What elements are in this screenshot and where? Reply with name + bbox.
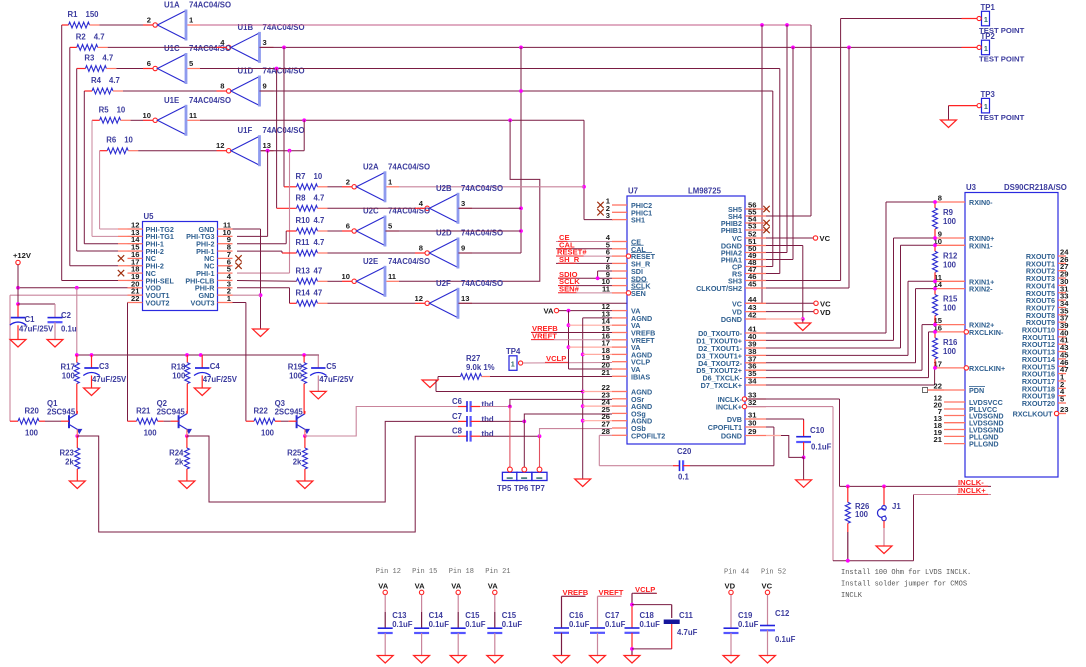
svg-text:74AC04/SO: 74AC04/SO xyxy=(461,184,503,193)
svg-text:SEN#: SEN# xyxy=(559,284,580,293)
svg-text:2k: 2k xyxy=(65,458,74,467)
svg-text:TP7: TP7 xyxy=(531,484,545,493)
svg-text:R22: R22 xyxy=(254,407,269,416)
wire xyxy=(286,230,296,232)
ground R25 xyxy=(297,481,313,489)
wire D7_TXCLK+ xyxy=(766,384,935,386)
svg-text:VOUT2: VOUT2 xyxy=(146,298,170,307)
wire CP xyxy=(766,266,773,268)
wire SH4 xyxy=(766,215,811,217)
svg-text:74AC04/SO: 74AC04/SO xyxy=(189,44,231,53)
svg-text:3: 3 xyxy=(461,199,465,208)
inverter U2C xyxy=(352,229,356,233)
svg-text:100: 100 xyxy=(62,372,76,381)
svg-text:U1E: U1E xyxy=(164,96,179,105)
node v521-U2Cin xyxy=(519,229,523,233)
wire xyxy=(276,69,278,209)
svg-text:4.7: 4.7 xyxy=(94,32,105,41)
svg-text:U2F: U2F xyxy=(436,279,451,288)
svg-text:C16: C16 xyxy=(569,611,584,620)
node v521-U2Bin xyxy=(519,206,523,210)
jumper J1 xyxy=(883,486,885,505)
node Q2 emitter xyxy=(185,434,189,438)
resistor R18 xyxy=(186,355,188,363)
node C8-TP7 xyxy=(538,434,542,438)
wire AGND riser xyxy=(583,317,612,319)
wire xyxy=(76,288,78,355)
svg-text:3: 3 xyxy=(606,211,610,220)
wire SDI xyxy=(598,270,612,272)
svg-text:Pin 18: Pin 18 xyxy=(449,568,474,576)
ground C18 xyxy=(624,656,640,664)
resistor R2 xyxy=(77,45,98,51)
inverter U1E xyxy=(153,118,157,122)
net VREFT xyxy=(531,339,612,341)
svg-text:R12: R12 xyxy=(943,251,958,260)
svg-text:13: 13 xyxy=(263,141,271,150)
inverter U1D xyxy=(227,89,231,93)
wire xyxy=(267,151,269,237)
power VD pin43 xyxy=(814,309,818,313)
no-connect square PDN xyxy=(923,388,928,393)
IC U3 right pins RXOUT0-20 xyxy=(1058,255,1066,257)
node U5 gnd xyxy=(259,293,263,297)
wire xyxy=(76,413,79,415)
svg-text:PDN: PDN xyxy=(969,386,984,395)
svg-text:100: 100 xyxy=(144,429,158,438)
node C10 gnd xyxy=(802,456,806,460)
node RXIN1- xyxy=(933,243,937,247)
wire xyxy=(303,413,306,415)
inverter U2D xyxy=(425,251,429,255)
wire xyxy=(76,69,78,252)
svg-text:C15: C15 xyxy=(465,611,480,620)
wire D4_TXOUT2- xyxy=(766,362,916,364)
svg-text:0.1uF: 0.1uF xyxy=(775,635,796,644)
svg-text:0.1u: 0.1u xyxy=(61,325,77,334)
svg-text:28: 28 xyxy=(602,427,610,436)
node rowB-pin45 xyxy=(847,46,851,50)
inverter U1F xyxy=(227,149,231,153)
IC U7 box xyxy=(627,196,745,444)
IC U7 left pins xyxy=(612,204,627,206)
wire xyxy=(569,346,613,348)
resistor R19 xyxy=(303,355,305,363)
wire xyxy=(186,413,188,415)
svg-text:R19: R19 xyxy=(288,363,303,372)
svg-text:Pin 15: Pin 15 xyxy=(412,568,437,576)
wire VC44 xyxy=(766,302,814,304)
svg-text:U2D: U2D xyxy=(436,229,452,238)
svg-text:2: 2 xyxy=(147,16,151,25)
svg-text:2k: 2k xyxy=(175,458,184,467)
svg-text:TP6: TP6 xyxy=(514,484,529,493)
node INCLK-R26 xyxy=(846,485,850,489)
resistor R10 xyxy=(297,228,318,234)
wire xyxy=(123,90,217,92)
testpoint TP5 xyxy=(502,472,517,480)
wire xyxy=(480,420,524,422)
wire CPOFILT1 xyxy=(683,465,690,467)
wire xyxy=(328,230,343,232)
svg-text:Pin 52: Pin 52 xyxy=(761,569,786,577)
node bus xyxy=(199,353,203,357)
node INCLK-J1 xyxy=(882,485,886,489)
output-bubble U7 pin33 xyxy=(742,397,746,401)
svg-text:U1A: U1A xyxy=(164,1,180,10)
inverter U1B xyxy=(227,45,231,49)
node rowB-R7 xyxy=(282,46,286,50)
resistor R1 xyxy=(69,22,90,28)
svg-text:0.1uF: 0.1uF xyxy=(465,620,486,629)
svg-text:1: 1 xyxy=(984,102,988,111)
svg-text:4.7: 4.7 xyxy=(314,238,325,247)
node bus xyxy=(90,353,94,357)
wire D3_TXOUT1+ xyxy=(766,354,908,356)
capacitor C8 xyxy=(458,435,467,437)
ground J1 xyxy=(876,546,892,554)
svg-text:SEN: SEN xyxy=(631,289,646,298)
wire xyxy=(91,120,93,236)
svg-text:VD: VD xyxy=(725,582,736,591)
svg-text:R23: R23 xyxy=(59,449,74,458)
svg-text:22: 22 xyxy=(934,382,942,391)
resistor R9 xyxy=(934,202,936,208)
node rowD-v521 xyxy=(519,89,523,93)
resistor R24 xyxy=(186,436,188,448)
wire net SH1 xyxy=(200,119,584,121)
svg-text:C2: C2 xyxy=(61,311,72,320)
svg-text:29: 29 xyxy=(748,427,756,436)
inverter U2E xyxy=(352,279,356,283)
svg-text:DGND: DGND xyxy=(721,315,742,324)
svg-text:12: 12 xyxy=(216,141,224,150)
svg-text:R8: R8 xyxy=(296,193,307,202)
svg-text:R27: R27 xyxy=(466,354,480,363)
svg-text:4.7: 4.7 xyxy=(102,54,113,63)
wire xyxy=(76,429,78,436)
svg-text:Install solder jumper for CMOS: Install solder jumper for CMOS xyxy=(841,581,967,589)
svg-text:U1B: U1B xyxy=(238,23,254,32)
svg-text:0.1uF: 0.1uF xyxy=(738,620,759,629)
node VA17 xyxy=(567,345,571,349)
svg-text:10: 10 xyxy=(117,105,126,114)
power VC pin44 xyxy=(814,301,818,305)
resistor R13 xyxy=(297,278,318,284)
wire xyxy=(480,406,510,408)
svg-text:VCLP: VCLP xyxy=(546,354,566,363)
svg-text:150: 150 xyxy=(86,10,100,19)
wire VC52 xyxy=(766,237,813,239)
wire xyxy=(108,46,217,48)
capacitor C5 xyxy=(317,355,319,368)
wire Q3 route xyxy=(305,407,460,437)
svg-text:C17: C17 xyxy=(605,611,619,620)
wire net RS xyxy=(200,68,780,70)
svg-text:C15: C15 xyxy=(502,611,517,620)
wire xyxy=(583,353,612,355)
ground R23 xyxy=(69,481,85,489)
svg-text:4.7uF: 4.7uF xyxy=(677,628,698,637)
svg-text:+12V: +12V xyxy=(13,251,32,260)
svg-text:47uF/25V: 47uF/25V xyxy=(203,375,238,384)
svg-text:INCLK: INCLK xyxy=(841,592,863,600)
svg-text:C3: C3 xyxy=(99,362,110,371)
node VA14 xyxy=(567,323,571,327)
svg-text:11: 11 xyxy=(189,111,198,120)
resistor R7 xyxy=(297,184,318,190)
wire xyxy=(131,119,143,121)
svg-text:1: 1 xyxy=(511,359,515,368)
node +12v-a xyxy=(16,286,20,290)
wire Q1 route xyxy=(77,436,460,532)
wire xyxy=(290,302,297,304)
wire xyxy=(186,413,188,415)
svg-text:tbd: tbd xyxy=(482,400,494,409)
svg-text:C14: C14 xyxy=(429,611,444,620)
ground DGND xyxy=(795,323,811,331)
wire xyxy=(328,280,343,282)
svg-text:10: 10 xyxy=(143,111,151,120)
svg-text:0.1uF: 0.1uF xyxy=(605,620,626,629)
svg-text:0.1uF: 0.1uF xyxy=(640,620,661,629)
svg-text:DGND: DGND xyxy=(721,432,742,441)
svg-text:100: 100 xyxy=(172,372,186,381)
svg-text:C4: C4 xyxy=(210,362,221,371)
svg-text:0.1: 0.1 xyxy=(678,473,690,482)
svg-text:C5: C5 xyxy=(326,362,337,371)
svg-text:VC: VC xyxy=(762,582,773,591)
svg-text:47uF/25V: 47uF/25V xyxy=(92,375,127,384)
transistor Q1 2SC945 xyxy=(68,415,70,428)
node RXIN0- xyxy=(933,200,937,204)
svg-text:11: 11 xyxy=(388,272,397,281)
svg-text:Install 100 Ohm for LVDS INCLK: Install 100 Ohm for LVDS INCLK. xyxy=(841,569,971,577)
wire net VCLP xyxy=(523,362,612,365)
net SCLK xyxy=(558,285,612,287)
svg-text:INCLK+: INCLK+ xyxy=(958,486,986,495)
node R26 bottom xyxy=(846,559,850,563)
svg-text:LM98725: LM98725 xyxy=(688,187,722,196)
wire INCLK+ xyxy=(747,406,833,408)
wire xyxy=(39,420,45,422)
svg-text:100: 100 xyxy=(943,217,957,226)
ground R27 xyxy=(422,380,438,388)
node RXCLKIN- xyxy=(933,330,937,334)
node VCLP top xyxy=(630,603,634,607)
wire xyxy=(786,25,788,253)
svg-text:4.7: 4.7 xyxy=(109,76,120,85)
svg-text:R1: R1 xyxy=(68,10,79,19)
IC U5 box xyxy=(143,222,218,311)
wire xyxy=(328,252,416,254)
IC U3 pin RXCLKOUT xyxy=(1058,413,1066,415)
capacitor C2 xyxy=(48,317,63,319)
wire DGND29 xyxy=(766,435,781,437)
svg-text:Pin 44: Pin 44 xyxy=(724,569,749,577)
wire PHIA2 xyxy=(766,252,787,254)
resistor R12 xyxy=(934,245,936,251)
svg-text:12: 12 xyxy=(415,294,423,303)
svg-text:100: 100 xyxy=(855,510,869,519)
ground C10 xyxy=(796,480,812,488)
svg-text:100: 100 xyxy=(943,347,957,356)
capacitor C1 xyxy=(17,304,19,318)
svg-text:10: 10 xyxy=(342,272,350,281)
testpoint TP6 xyxy=(517,472,532,480)
svg-text:47: 47 xyxy=(314,266,323,275)
wire xyxy=(76,413,78,415)
resistor R6 xyxy=(107,148,128,154)
wire xyxy=(83,91,85,244)
wire D5_TXOUT2+ xyxy=(766,369,922,371)
capacitor C11 (4.7uF) xyxy=(632,604,672,606)
svg-text:13: 13 xyxy=(461,294,469,303)
svg-text:U1D: U1D xyxy=(238,67,254,76)
node RXIN2+ xyxy=(933,323,937,327)
svg-text:C18: C18 xyxy=(640,611,655,620)
net SEN# xyxy=(558,292,612,294)
transistor Q2 2SC945 xyxy=(178,415,180,428)
svg-text:R2: R2 xyxy=(76,32,87,41)
svg-text:RXIN1-: RXIN1- xyxy=(969,241,993,250)
net SDIO xyxy=(558,277,612,279)
wire xyxy=(99,151,101,229)
svg-text:4.7: 4.7 xyxy=(314,216,325,225)
wire xyxy=(569,324,613,326)
ground C5 xyxy=(310,391,326,399)
no-connect U7 pin1 xyxy=(597,202,603,208)
no-connect U5 pin16 xyxy=(118,255,124,261)
svg-text:U2B: U2B xyxy=(436,184,452,193)
wire xyxy=(328,207,416,209)
capacitor C6 xyxy=(458,406,467,408)
node v584-U2Ain xyxy=(582,185,586,189)
svg-text:U3: U3 xyxy=(966,183,977,192)
resistor R23 xyxy=(76,436,78,448)
svg-text:45: 45 xyxy=(748,280,757,289)
svg-text:R13: R13 xyxy=(296,266,311,275)
svg-text:6: 6 xyxy=(147,59,151,68)
svg-text:RXIN0-: RXIN0- xyxy=(969,198,993,207)
svg-text:VREFT: VREFT xyxy=(599,588,624,597)
svg-text:Pin 12: Pin 12 xyxy=(376,568,401,576)
ground C4 xyxy=(194,388,210,396)
svg-text:R6: R6 xyxy=(106,136,117,145)
input-bubble U7 pin6 xyxy=(626,254,630,258)
wire xyxy=(275,420,281,422)
node U1F-pin10 xyxy=(266,149,270,153)
ground C1 xyxy=(10,340,26,348)
svg-text:D7_TXCLK+: D7_TXCLK+ xyxy=(701,381,742,390)
node Q3 emitter xyxy=(303,434,307,438)
node AGND xyxy=(581,419,585,423)
node rowE-U1F xyxy=(302,118,306,122)
svg-text:U1F: U1F xyxy=(238,126,253,135)
IC U7 right pins xyxy=(745,208,766,210)
inverter U2F xyxy=(425,301,429,305)
svg-text:0.1uF: 0.1uF xyxy=(569,620,590,629)
svg-text:R5: R5 xyxy=(99,105,110,114)
svg-text:INCLK+: INCLK+ xyxy=(716,403,742,412)
svg-text:TEST POINT: TEST POINT xyxy=(979,113,1025,122)
wire xyxy=(237,280,297,283)
wire D0_TXOUT0- xyxy=(766,332,886,334)
inverter U2A xyxy=(352,185,356,189)
svg-text:R18: R18 xyxy=(171,363,186,372)
svg-text:U2A: U2A xyxy=(363,162,379,171)
inverter U1C xyxy=(153,66,157,70)
svg-text:R17: R17 xyxy=(60,363,74,372)
svg-text:R14: R14 xyxy=(296,288,311,297)
wire CPOFILT2 xyxy=(599,434,612,436)
resistor R17 xyxy=(76,355,78,363)
wire PHIA1 xyxy=(766,259,793,261)
resistor R14 xyxy=(297,300,318,306)
svg-text:34: 34 xyxy=(748,377,757,386)
svg-text:C6: C6 xyxy=(452,397,463,406)
svg-text:0.1uF: 0.1uF xyxy=(429,620,450,629)
wire DGND51 xyxy=(766,245,803,247)
wire xyxy=(583,405,612,407)
ground U5 xyxy=(253,329,269,337)
wire xyxy=(100,24,144,26)
wire xyxy=(261,150,305,152)
wire net U2C-in xyxy=(385,230,521,232)
wire C5 corner xyxy=(317,354,320,356)
svg-text:C20: C20 xyxy=(677,447,692,456)
svg-text:SH1: SH1 xyxy=(631,216,645,225)
wire xyxy=(583,391,612,393)
wire RS xyxy=(766,273,780,275)
resistor R20 xyxy=(18,418,39,424)
svg-text:10: 10 xyxy=(124,136,133,145)
power VC pin52 xyxy=(813,236,817,240)
svg-text:23: 23 xyxy=(1060,405,1068,414)
svg-text:C10: C10 xyxy=(810,426,825,435)
node bus xyxy=(185,353,189,357)
wire xyxy=(772,91,774,267)
svg-text:3: 3 xyxy=(263,38,267,47)
svg-text:TP4: TP4 xyxy=(506,347,521,356)
node bus xyxy=(75,353,79,357)
svg-text:100: 100 xyxy=(289,372,303,381)
wire net CP xyxy=(260,90,773,92)
transistor Q3 2SC945 xyxy=(296,415,298,428)
wire D1_TXOUT0+ xyxy=(766,339,894,341)
svg-text:9: 9 xyxy=(461,244,465,253)
wire xyxy=(328,302,416,304)
net SH_R xyxy=(556,262,612,264)
wire xyxy=(583,120,585,219)
node RXIN0+ xyxy=(933,236,937,240)
svg-text:R4: R4 xyxy=(91,76,102,85)
wire VDD bus xyxy=(77,354,319,356)
resistor R15 xyxy=(934,289,936,295)
wire VD43 xyxy=(766,311,814,313)
no-connect U7 pin53 xyxy=(763,227,769,233)
svg-text:100: 100 xyxy=(25,429,39,438)
svg-text:22: 22 xyxy=(131,294,139,303)
node SDIO xyxy=(596,276,600,280)
svg-text:74AC04/SO: 74AC04/SO xyxy=(388,257,430,266)
ground C3 xyxy=(84,388,100,396)
svg-text:6: 6 xyxy=(346,222,350,231)
svg-text:R15: R15 xyxy=(943,295,958,304)
svg-text:C11: C11 xyxy=(679,611,694,620)
svg-text:VOUT3: VOUT3 xyxy=(191,298,215,307)
svg-text:U5: U5 xyxy=(144,212,155,221)
